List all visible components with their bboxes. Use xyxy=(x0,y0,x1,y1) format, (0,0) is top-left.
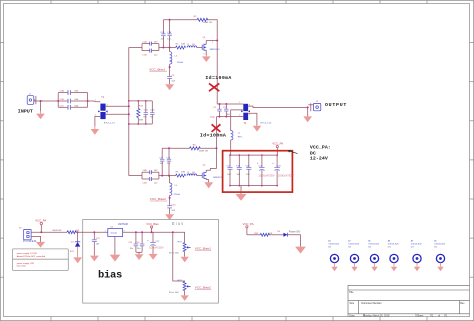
wire upper drain bus xyxy=(216,41,218,105)
transistor Q2 xyxy=(202,165,223,180)
svg-text:1: 1 xyxy=(105,230,106,232)
node output junction xyxy=(307,106,309,108)
wire Q1 drain xyxy=(206,40,217,42)
svg-text:C1B: C1B xyxy=(142,54,147,56)
ground U1 xyxy=(110,255,121,262)
capacitor C17 polarized xyxy=(147,232,163,254)
wire U1 output rail xyxy=(123,231,173,233)
X mark lower xyxy=(212,124,221,132)
regulator U1 LM78L08 xyxy=(105,223,129,237)
wire join to ground xyxy=(138,252,140,254)
svg-text:VCC_PA: VCC_PA xyxy=(243,222,254,226)
svg-text:Bias: Bias xyxy=(172,221,185,226)
net label VCC_Bias1 xyxy=(149,67,167,71)
wire L4 to bias node xyxy=(169,64,171,76)
wire Q1 source xyxy=(205,51,207,55)
svg-text:Attend PCB be NOT controlled: Attend PCB be NOT controlled xyxy=(17,255,46,258)
connector P2 POWER xyxy=(19,227,37,243)
wire R2 to drain bus xyxy=(207,20,217,41)
node cap bank left xyxy=(57,100,59,102)
wire T1 secondary top xyxy=(106,105,129,107)
power pin VCC_Bias xyxy=(146,222,159,232)
svg-text:NC: NC xyxy=(144,117,148,119)
svg-text:C2A: C2A xyxy=(60,90,65,93)
svg-text:INPUT: INPUT xyxy=(18,109,33,115)
node T1 top pin xyxy=(128,105,130,107)
svg-text:3-Shell_Bolt: 3-Shell_Bolt xyxy=(368,242,379,245)
mounting hole A4 xyxy=(328,239,339,271)
power pin VCC_PA LED xyxy=(243,222,254,235)
wire T2 secondary top to output xyxy=(248,106,308,107)
wire bias rail left xyxy=(31,231,67,233)
ground D1 xyxy=(73,257,82,263)
capacitor C24 polarized xyxy=(272,155,294,186)
svg-text:220nH: 220nH xyxy=(177,62,184,64)
wire R3 to U1 xyxy=(76,231,108,233)
wire input to caps xyxy=(41,100,59,102)
mounting hole A5 xyxy=(434,239,445,271)
svg-text:3-Shell_Bolt: 3-Shell_Bolt xyxy=(388,242,399,245)
svg-text:VCC_Bias2: VCC_Bias2 xyxy=(195,286,211,290)
node D1 tap xyxy=(77,231,79,233)
capacitor C15 xyxy=(144,101,149,124)
LED D4 xyxy=(277,230,300,236)
wire Q2 drain xyxy=(206,169,216,171)
wire T2 center tap xyxy=(231,110,244,131)
svg-text:100p: 100p xyxy=(210,117,216,119)
wire cap bank to ground xyxy=(240,186,242,194)
node lower loop xyxy=(168,147,170,149)
svg-text:12-24V: 12-24V xyxy=(310,156,328,162)
wire gate cluster box top xyxy=(129,100,153,102)
svg-text:C2B: C2B xyxy=(60,99,65,101)
svg-text:Date:: Date: xyxy=(349,314,355,317)
wire RV1 to ground xyxy=(184,252,186,257)
node cluster corners xyxy=(128,100,147,125)
node C12 bottom xyxy=(225,116,227,118)
X mark upper xyxy=(209,83,219,91)
ground C21 xyxy=(90,256,99,262)
resistor R13 xyxy=(137,101,144,124)
wire VCC_PA top bus xyxy=(230,154,277,156)
svg-text:DC: DC xyxy=(310,150,316,156)
ground Q1 xyxy=(202,55,211,62)
svg-text:POWER: POWER xyxy=(23,239,37,243)
wire U1 ground xyxy=(114,237,116,255)
svg-text:C4B: C4B xyxy=(142,183,147,185)
net label VCC_Bias2 at RV2 xyxy=(195,286,211,290)
wire lower bias feed vertical xyxy=(168,175,171,177)
svg-text:3K or 10K: 3K or 10K xyxy=(169,252,179,255)
svg-text:2: 2 xyxy=(239,102,240,104)
wire RV2 to ground xyxy=(184,291,186,296)
svg-text:3-Shell_Bolt: 3-Shell_Bolt xyxy=(328,242,339,245)
wire to RV2 xyxy=(173,232,185,281)
wire Q2 source to ground xyxy=(206,180,208,183)
svg-text:56R: 56R xyxy=(139,120,143,122)
svg-text:DG: DG xyxy=(411,247,414,249)
svg-text:bias: bias xyxy=(98,270,122,282)
wire L2 to Q1 gate xyxy=(197,47,203,49)
capacitor C16 xyxy=(135,232,144,252)
ground cap bank xyxy=(236,194,247,201)
wire T1 secondary bottom xyxy=(106,113,129,115)
transistor Q1 xyxy=(202,37,220,55)
capacitor C2A xyxy=(58,90,87,95)
svg-text:Monday, March 26, 2018: Monday, March 26, 2018 xyxy=(363,314,390,317)
wire upper bias feed vertical xyxy=(169,48,171,52)
ground C13 xyxy=(165,214,174,220)
svg-text:C1A: C1A xyxy=(142,41,147,44)
svg-text:Id=100mA: Id=100mA xyxy=(200,133,226,139)
connector J1 shell pin xyxy=(34,96,43,104)
wire L5 to bias node xyxy=(169,195,171,205)
resistor R4 xyxy=(176,43,186,49)
svg-text:power supply :12-24V: power supply :12-24V xyxy=(17,252,38,255)
svg-text:3: 3 xyxy=(203,54,204,56)
inductor L4 xyxy=(170,52,184,64)
svg-text:of: of xyxy=(438,314,440,317)
node lower feedback stub left xyxy=(161,175,163,177)
wire gate cluster right rail xyxy=(151,101,153,113)
resistor R3 xyxy=(52,230,79,234)
mounting hole A7 xyxy=(348,239,359,271)
wire LED rail left xyxy=(247,234,260,236)
ground RV2 xyxy=(181,295,189,301)
wire to RV1 xyxy=(173,232,185,242)
wire cap bank right rail xyxy=(87,93,89,108)
capacitor C10 xyxy=(160,32,165,40)
node input junction xyxy=(40,100,42,102)
potentiometer RV2 xyxy=(169,280,191,294)
node top loop xyxy=(169,19,171,21)
svg-text:78L08: 78L08 xyxy=(110,232,117,235)
node RV junction xyxy=(172,231,174,233)
ground RV1 xyxy=(181,257,189,263)
capacitor C5 xyxy=(167,75,176,82)
svg-text:VCC_PA:: VCC_PA: xyxy=(310,144,331,150)
svg-text:Document Number: Document Number xyxy=(362,302,382,305)
ground C5 xyxy=(165,84,174,90)
wire L1 to VCC_PA bus xyxy=(230,140,232,155)
svg-text:1000uF/35V: 1000uF/35V xyxy=(258,173,274,177)
svg-text:1: 1 xyxy=(95,100,96,102)
svg-text:VCC_Bias: VCC_Bias xyxy=(146,222,159,226)
svg-text:Sheet: Sheet xyxy=(417,314,424,317)
VCC_PA DC annotation xyxy=(310,144,331,161)
svg-text:VCC_Bias1: VCC_Bias1 xyxy=(195,246,211,250)
node VCC_Bias1 upper xyxy=(169,66,171,68)
node lower feedback stub right xyxy=(168,175,170,177)
node C12 top xyxy=(225,103,227,105)
wire feedback stub right vertical xyxy=(169,20,171,48)
resistor R6 xyxy=(190,145,209,153)
capacitor C9 xyxy=(159,157,164,165)
svg-text:DG: DG xyxy=(388,247,391,249)
svg-text:ETC1-1-13: ETC1-1-13 xyxy=(104,122,115,124)
wire C13 to ground xyxy=(169,208,171,214)
mounting hole A8 xyxy=(388,239,399,271)
svg-text:1000uF/35V: 1000uF/35V xyxy=(278,173,294,177)
capacitor C22 polarized xyxy=(257,155,275,186)
wire T1 primary bottom to ground xyxy=(95,116,100,126)
node C14 rail xyxy=(135,231,137,233)
transformer T1 xyxy=(95,96,116,125)
capacitor C3 xyxy=(210,104,222,119)
ferrite bead L2 xyxy=(187,44,197,48)
ground input xyxy=(36,111,45,119)
svg-text:VCC_Bias2: VCC_Bias2 xyxy=(150,197,166,201)
svg-text:3-Shell_Bolt: 3-Shell_Bolt xyxy=(411,242,422,245)
capacitor C4B xyxy=(142,177,159,185)
capacitor C1B xyxy=(142,49,159,57)
svg-text:DG: DG xyxy=(368,247,371,249)
svg-text:ETC1-1-13: ETC1-1-13 xyxy=(261,123,272,125)
wire lower caps to gate junctions xyxy=(159,175,176,177)
svg-text:DG: DG xyxy=(328,247,331,249)
svg-text:NC: NC xyxy=(150,117,154,119)
svg-text:OUTPUT: OUTPUT xyxy=(325,102,347,108)
node feedback stub right xyxy=(169,47,171,49)
svg-text:Title: Title xyxy=(349,291,354,294)
capacitor C2B xyxy=(58,99,87,104)
svg-text:C4A: C4A xyxy=(142,169,147,172)
svg-text:Size: Size xyxy=(349,302,354,305)
svg-text:3-Shell_Bolt: 3-Shell_Bolt xyxy=(434,242,445,245)
connector J1 INPUT xyxy=(27,94,35,105)
ferrite bead L3 xyxy=(187,172,197,176)
svg-text:360R 3W: 360R 3W xyxy=(52,230,62,232)
capacitor C11 xyxy=(166,157,171,165)
wire input ground stub xyxy=(40,101,42,111)
wire R6 to lower drain bus xyxy=(199,147,216,149)
capacitor C2C xyxy=(58,105,87,110)
ground Q2 xyxy=(204,182,213,188)
wire main gate vertical xyxy=(128,48,130,176)
ground output xyxy=(303,116,312,122)
node VCC_Bias2 lower xyxy=(169,197,171,199)
capacitor C23 xyxy=(150,109,155,118)
svg-text:Id=100mA: Id=100mA xyxy=(205,75,231,81)
node T1 bottom pin xyxy=(128,113,130,115)
capacitor C4A xyxy=(142,169,159,179)
wire T2 primary top xyxy=(217,103,243,105)
svg-text:RFC: RFC xyxy=(238,137,243,139)
svg-text:C2C: C2C xyxy=(60,105,65,107)
wire C14 C16 join xyxy=(136,251,142,253)
wire cap bank left rail xyxy=(57,93,59,108)
node C3 bottom xyxy=(219,116,221,118)
wire caps to gate junctions xyxy=(159,47,176,49)
svg-text:VCC_PA: VCC_PA xyxy=(272,141,283,145)
node cap bank right xyxy=(87,100,89,102)
svg-text:MRF9120: MRF9120 xyxy=(210,49,220,51)
svg-text:2: 2 xyxy=(212,42,213,44)
capacitor C1A xyxy=(142,41,159,51)
mounting hole A6 xyxy=(368,239,379,271)
svg-text:3: 3 xyxy=(239,115,240,117)
diode D1 zener xyxy=(70,232,80,257)
svg-text:10R: 10R xyxy=(181,43,185,45)
svg-text:LM78L08: LM78L08 xyxy=(118,223,129,226)
wire T2 primary bottom xyxy=(217,116,244,118)
wire lower feedback stub right vertical xyxy=(168,148,170,175)
svg-text:power supply :24V: power supply :24V xyxy=(17,262,35,265)
capacitor C21 xyxy=(92,232,101,255)
ground P2 xyxy=(36,242,45,248)
wire lower gate line xyxy=(129,175,142,177)
capacitor C18 xyxy=(227,155,233,186)
resistor R5 xyxy=(176,172,186,178)
svg-text:DG: DG xyxy=(348,247,351,249)
svg-text:100R 1W: 100R 1W xyxy=(203,22,213,24)
node VCC_Bias rail xyxy=(151,231,153,233)
wire T2 secondary bottom to ground xyxy=(248,113,257,126)
mounting hole A9 xyxy=(411,239,422,271)
node Q1 drain xyxy=(216,40,218,42)
wire R32 to D4 xyxy=(269,234,284,236)
svg-text:100R 1W: 100R 1W xyxy=(199,151,209,153)
ground LED xyxy=(295,247,306,254)
node C21 tap xyxy=(93,231,95,233)
node bus junctions xyxy=(229,154,278,186)
wire L3 to Q2 gate xyxy=(197,175,203,177)
net label VCC_Bias1 at RV1 xyxy=(195,246,211,250)
wire gate cluster box bottom xyxy=(129,123,153,125)
svg-text:VCC_Bias1: VCC_Bias1 xyxy=(149,67,165,71)
capacitor C12 xyxy=(223,104,231,117)
wire feedback stub left vertical xyxy=(162,20,164,48)
node feedback stub left xyxy=(162,47,164,49)
note box power supply xyxy=(13,249,69,271)
wire VCC_PA bottom bus xyxy=(230,185,277,187)
node C3 top xyxy=(219,103,221,105)
inductor L1 RFC xyxy=(231,131,243,140)
wire caps to T1 xyxy=(88,100,101,103)
svg-text:3K or 10K: 3K or 10K xyxy=(169,291,179,294)
capacitor C7B xyxy=(167,32,172,40)
svg-text:220nH: 220nH xyxy=(174,194,181,196)
svg-text:100uF/25V: 100uF/25V xyxy=(149,245,164,249)
power pin VCC_PA bias xyxy=(35,218,46,232)
potentiometer RV1 xyxy=(169,242,191,255)
node C16 rail xyxy=(141,231,143,233)
wire Q1 drain lead xyxy=(205,41,207,44)
wire output ground stub xyxy=(307,107,309,116)
annotation arrow to box xyxy=(288,150,298,153)
connector J2 OUTPUT xyxy=(308,101,321,111)
svg-text:VCC_PA: VCC_PA xyxy=(35,218,46,222)
svg-text:DG: DG xyxy=(434,247,437,249)
wire lower drain bus xyxy=(216,117,218,169)
wire D4 to ground xyxy=(287,235,300,247)
transformer T2 xyxy=(239,102,250,125)
resistor R2 xyxy=(194,16,213,24)
svg-text:bias temp: bias temp xyxy=(17,265,27,268)
capacitor C13 xyxy=(167,204,176,212)
bias section box xyxy=(83,220,219,304)
node VCC_PA bias rail xyxy=(40,231,42,233)
svg-text:Power ON: Power ON xyxy=(289,230,300,233)
ground T2 xyxy=(253,126,262,132)
capacitor C19 xyxy=(236,155,242,186)
wire C5 to ground xyxy=(169,79,171,85)
wire lower feedback loop xyxy=(162,147,189,149)
wire top feedback loop xyxy=(163,19,197,21)
svg-text:C7B: C7B xyxy=(167,32,172,34)
node lower loop bus xyxy=(216,147,218,149)
capacitor C20 xyxy=(245,155,251,186)
resistor R32 xyxy=(254,233,273,236)
capacitor C14 xyxy=(128,232,138,252)
ground T1 xyxy=(91,126,100,135)
wire P2 pin2 to ground xyxy=(31,236,40,242)
wire upper gate line xyxy=(129,47,142,49)
svg-text:10R: 10R xyxy=(181,172,185,174)
ground C14 C16 xyxy=(135,254,144,260)
power pin VCC_PA main xyxy=(272,141,283,155)
inductor L5 xyxy=(170,176,181,196)
svg-text:3-Shell_Bolt: 3-Shell_Bolt xyxy=(348,242,359,245)
wire lower feedback stub left vertical xyxy=(161,148,163,175)
net label VCC_Bias2 xyxy=(150,197,168,201)
svg-text:4: 4 xyxy=(249,114,250,116)
highlight box VCC_PA caps xyxy=(223,151,293,192)
ground C17 xyxy=(149,254,158,260)
